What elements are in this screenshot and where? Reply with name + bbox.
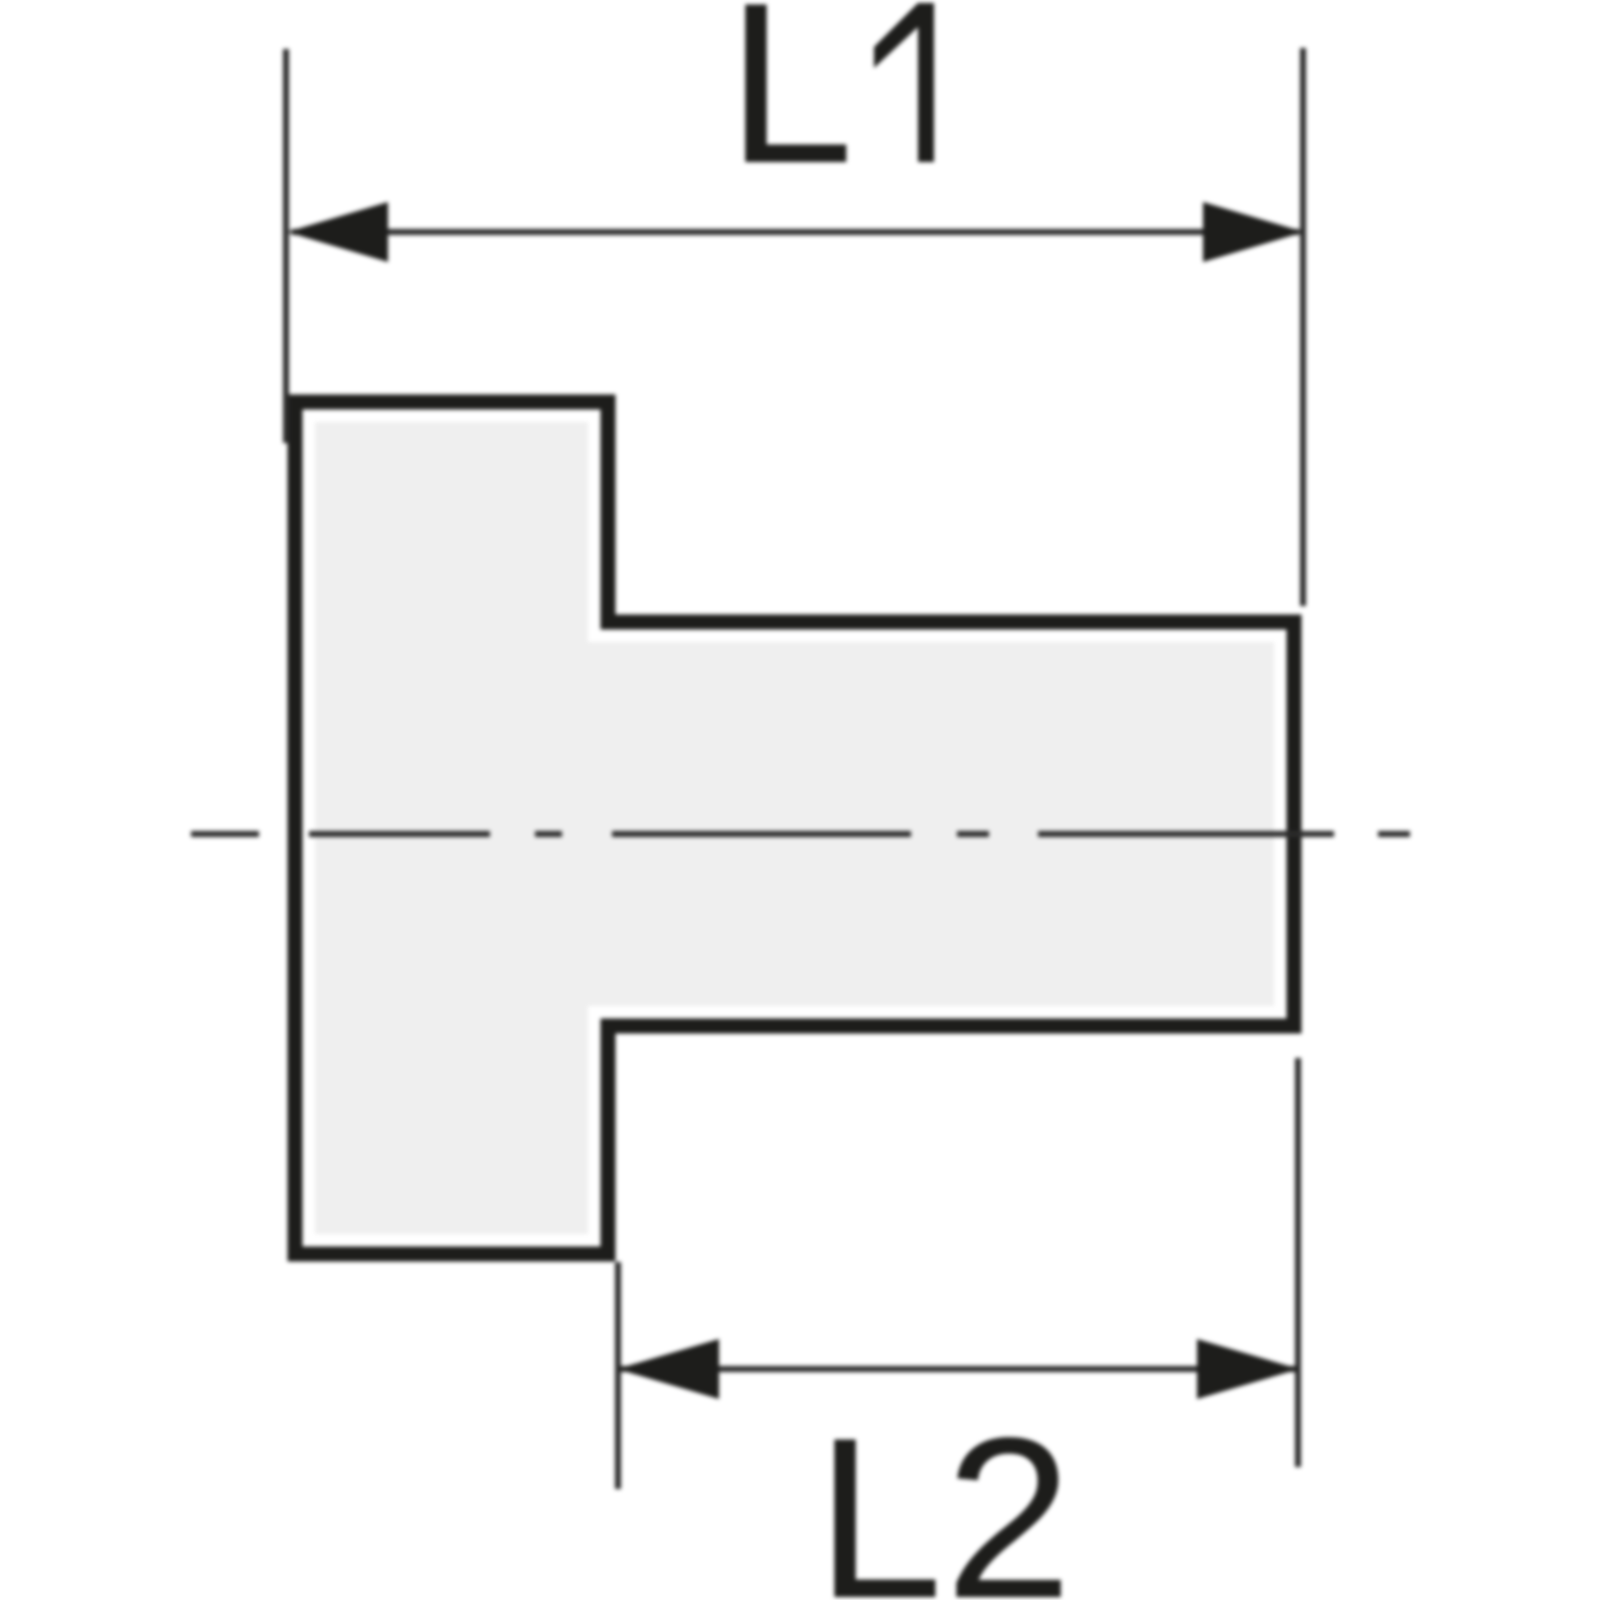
- svg-text:L: L: [816, 1390, 943, 1600]
- centerline dot 3: [1378, 831, 1410, 837]
- L1 extension line left: [283, 49, 289, 443]
- svg-text:2: 2: [945, 1390, 1072, 1600]
- L2 extension line left: [615, 1262, 621, 1489]
- centerline dash-dot (axis): [191, 831, 1410, 837]
- svg-text:L: L: [727, 0, 854, 211]
- centerline segment 1: [191, 831, 259, 837]
- part body outline (T-shaped fitting profile): [295, 402, 1294, 1254]
- centerline dot 2: [957, 831, 989, 837]
- L2 extension line right: [1295, 1058, 1301, 1467]
- centerline dot 1: [535, 831, 562, 837]
- centerline segment 3: [612, 831, 911, 837]
- centerline segment 4: [1038, 831, 1334, 837]
- L1 extension line right: [1300, 48, 1306, 606]
- L1 arrowhead left: [287, 202, 388, 262]
- L1 arrowhead right: [1203, 202, 1304, 262]
- L2 dimension line: [621, 1366, 1295, 1372]
- L2 arrowhead left: [617, 1339, 719, 1399]
- L2 arrowhead right: [1197, 1339, 1299, 1399]
- part body fill (grey cross-section): [315, 422, 1274, 1234]
- L1 dimension line: [292, 229, 1299, 235]
- L1 label digit 1: [874, 3, 934, 162]
- centerline segment 2: [309, 831, 490, 837]
